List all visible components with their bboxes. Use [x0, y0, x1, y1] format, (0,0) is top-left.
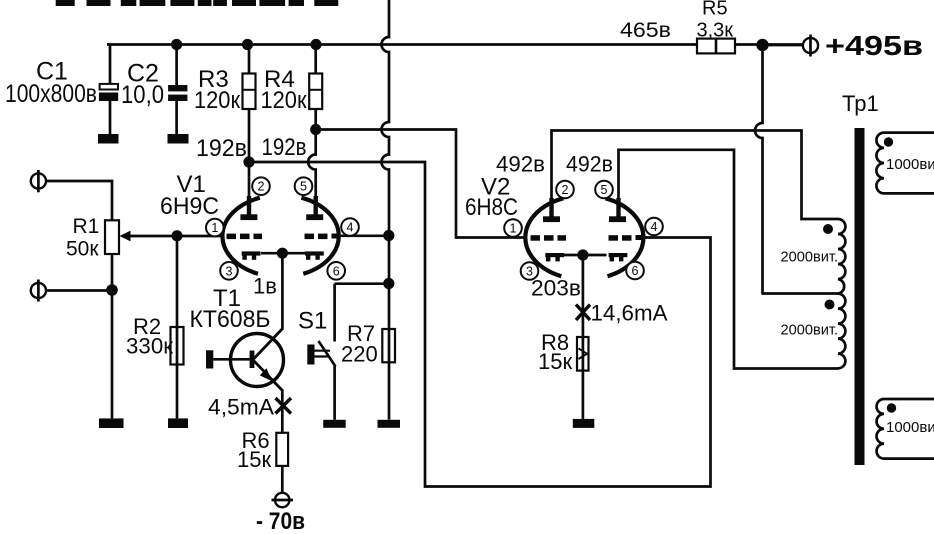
V2 tube envelope left arc — [525, 198, 563, 276]
V2 right cathode pin 6 — [609, 253, 628, 261]
capacitor C1 — [99, 84, 118, 101]
V2 right grid dashes pin 4 — [609, 235, 644, 241]
svg-text:50к: 50к — [66, 238, 99, 261]
V2 pin label 6 — [626, 262, 644, 280]
junction node after R5 — [756, 39, 768, 51]
resistor R2 — [171, 327, 184, 365]
resistor R4 — [309, 74, 322, 110]
svg-text:2000вит.: 2000вит. — [781, 322, 839, 339]
svg-text:220: 220 — [341, 342, 378, 367]
svg-text:192в: 192в — [196, 135, 247, 162]
wire S1 to feedback line — [335, 282, 389, 285]
ground at T1 base — [206, 350, 213, 368]
transformer Tp1 core — [855, 128, 865, 465]
junction node R3-bus — [242, 39, 253, 50]
Tp1 primary winding upper 2000 turns — [838, 219, 845, 294]
svg-text:1000вит: 1000вит — [886, 156, 934, 173]
switch S1 — [307, 284, 335, 420]
wire R3 branch / V1 left anode lead — [248, 45, 251, 216]
V1 right cathode pin 6 — [305, 251, 324, 259]
junction node S1 feedback — [383, 278, 394, 289]
svg-text:R5: R5 — [702, 0, 728, 20]
terminal -70v — [272, 493, 294, 507]
svg-text:15к: 15к — [538, 349, 572, 374]
V2 pin label 4 — [645, 218, 663, 236]
svg-text:1: 1 — [211, 221, 218, 235]
resistor R3 — [243, 74, 256, 110]
svg-text:2000вит.: 2000вит. — [781, 249, 839, 266]
ground under C1 — [98, 134, 119, 144]
wire V2 cathode to R8 and ground — [582, 255, 585, 419]
svg-text:1: 1 — [510, 222, 517, 236]
V2 pin label 1 — [504, 219, 522, 237]
V1 left anode plate — [240, 196, 257, 220]
junction node C2-bus — [171, 39, 182, 50]
svg-text:- 70в: - 70в — [256, 508, 305, 534]
svg-text:S1: S1 — [298, 308, 327, 335]
wire input top terminal to R1 — [46, 181, 112, 220]
resistor R5 — [697, 39, 735, 54]
svg-text:120к: 120к — [261, 87, 307, 114]
V1 right grid dashes pin 4 — [305, 234, 340, 240]
V2 left cathode pin 3 — [545, 253, 564, 261]
resistor R6 — [276, 433, 288, 466]
svg-text:5: 5 — [601, 183, 608, 197]
svg-text:330к: 330к — [126, 334, 173, 359]
svg-text:4: 4 — [651, 220, 658, 234]
junction node R4 anode — [310, 124, 321, 135]
wire T1 emitter down to R6 — [281, 390, 284, 494]
junction node V2 cathodes — [577, 249, 588, 260]
V2 pin label 2 — [556, 181, 574, 199]
Tp1 secondary winding lower 1000 turns — [877, 399, 934, 459]
wire C1 leads — [109, 45, 112, 135]
wire R3 node to V2 grid pin 4 (cross-coupling) — [249, 162, 711, 487]
wire R4 branch — [314, 45, 317, 130]
cropped title text bottoms — [56, 0, 339, 6]
wire R2 branch — [176, 236, 179, 419]
wire R1 bottom to ground — [111, 254, 114, 418]
V2 left grid dashes pin 1 — [531, 235, 567, 241]
resistor R8 with select mark — [577, 337, 589, 371]
V1 pin label 4 — [341, 218, 359, 236]
wire V1 cathode to T1 collector — [281, 253, 284, 330]
svg-text:Тр1: Тр1 — [842, 91, 879, 116]
svg-text:5: 5 — [300, 180, 307, 194]
V2 tube envelope right arc — [606, 198, 644, 276]
V2 right anode plate — [609, 198, 626, 222]
polarity dot lower primary — [825, 300, 835, 310]
ground under R8 — [573, 419, 595, 428]
wire +495 node down to primary center tap (with hop) — [755, 45, 838, 294]
svg-text:2: 2 — [562, 183, 569, 197]
svg-text:6Н9С: 6Н9С — [160, 193, 219, 220]
svg-text:4,5mA: 4,5mA — [208, 395, 274, 420]
svg-text:120к: 120к — [194, 87, 240, 114]
op V1 tube envelope left arc — [222, 198, 259, 274]
svg-text:192в: 192в — [262, 134, 307, 161]
junction node R2 grid — [171, 230, 182, 241]
wire feedback vertical line with hops — [382, 0, 390, 420]
resistor R7 — [382, 329, 395, 362]
ground under R2 — [168, 418, 188, 428]
svg-text:+495в: +495в — [825, 30, 923, 61]
junction node lower input — [106, 284, 118, 296]
svg-text:10,0: 10,0 — [121, 81, 164, 109]
svg-text:4: 4 — [347, 221, 354, 235]
wire input bottom terminal — [46, 289, 112, 292]
svg-text:465в: 465в — [620, 19, 671, 42]
junction node V1 cathodes — [277, 248, 288, 259]
svg-text:3: 3 — [226, 264, 233, 278]
wire R4 node to V2 grid pin 1 — [316, 130, 526, 238]
transistor T1 — [213, 329, 283, 391]
svg-text:203в: 203в — [531, 276, 581, 301]
V1 left grid dashes pin 1 — [227, 234, 263, 240]
svg-text:R1: R1 — [73, 215, 100, 238]
Tp1 secondary winding upper 1000 turns — [876, 133, 934, 194]
current mark X 4.5mA — [276, 398, 292, 414]
svg-text:492в: 492в — [496, 152, 545, 177]
potentiometer R1 — [105, 220, 131, 254]
Tp1 primary winding lower 2000 turns — [838, 294, 845, 369]
wire R5 to output terminal — [768, 44, 803, 47]
svg-text:1в: 1в — [253, 274, 277, 299]
wire V2 right anode lead to primary bottom — [619, 150, 839, 369]
V1 right anode plate — [306, 196, 323, 220]
V1 pin label 5 — [295, 177, 313, 195]
wire V2 cathode link — [563, 254, 607, 257]
current mark X 14.6mA — [576, 305, 590, 321]
wire R1 wiper to V1 grid pin 1 — [127, 235, 224, 238]
ground under R1 — [99, 418, 124, 428]
V1 pin label 6 — [327, 262, 345, 280]
V2 pin label 3 — [521, 262, 539, 280]
wire V2 left anode lead to primary top — [552, 131, 839, 220]
svg-text:492в: 492в — [566, 152, 613, 177]
junction node R3 anode — [243, 156, 254, 167]
V1 tube envelope right arc — [301, 198, 338, 274]
svg-text:14,6mA: 14,6mA — [591, 301, 668, 326]
svg-text:6: 6 — [333, 264, 340, 278]
svg-text:6: 6 — [632, 264, 639, 278]
svg-text:6Н8С: 6Н8С — [465, 194, 518, 221]
ground under C2 — [168, 134, 189, 144]
svg-text:1000вит: 1000вит — [886, 419, 934, 436]
V1 pin label 2 — [252, 177, 270, 195]
V2 left anode plate — [543, 198, 560, 222]
V1 left cathode pin 3 — [242, 251, 261, 259]
junction node V1 pin4 feedback — [383, 230, 394, 241]
svg-text:100х800в: 100х800в — [5, 80, 97, 108]
svg-text:15к: 15к — [237, 447, 271, 472]
svg-text:3,3к: 3,3к — [697, 20, 734, 42]
junction node R4-bus — [310, 39, 321, 50]
svg-text:КТ608Б: КТ608Б — [190, 306, 271, 333]
wire V1 pin 4 to feedback line — [337, 234, 389, 237]
input terminal top — [31, 170, 46, 192]
capacitor C2 — [168, 85, 187, 101]
polarity dot upper primary — [823, 224, 833, 234]
wire top supply bus — [107, 43, 803, 46]
V2 pin label 5 — [595, 181, 613, 199]
wire C2 leads — [175, 45, 178, 135]
input terminal bottom — [31, 280, 46, 302]
wire V1 cathode link — [261, 252, 305, 255]
V1 pin label 1 — [206, 219, 224, 237]
ground under R7 — [378, 420, 401, 428]
polarity dot lower secondary — [887, 403, 896, 412]
wire V1 right anode lead with hop — [308, 130, 315, 216]
ground under S1 — [323, 420, 346, 428]
svg-text:2: 2 — [258, 180, 265, 194]
polarity dot upper secondary — [884, 137, 893, 146]
terminal +495v — [803, 35, 818, 57]
V1 pin label 3 — [220, 262, 238, 280]
